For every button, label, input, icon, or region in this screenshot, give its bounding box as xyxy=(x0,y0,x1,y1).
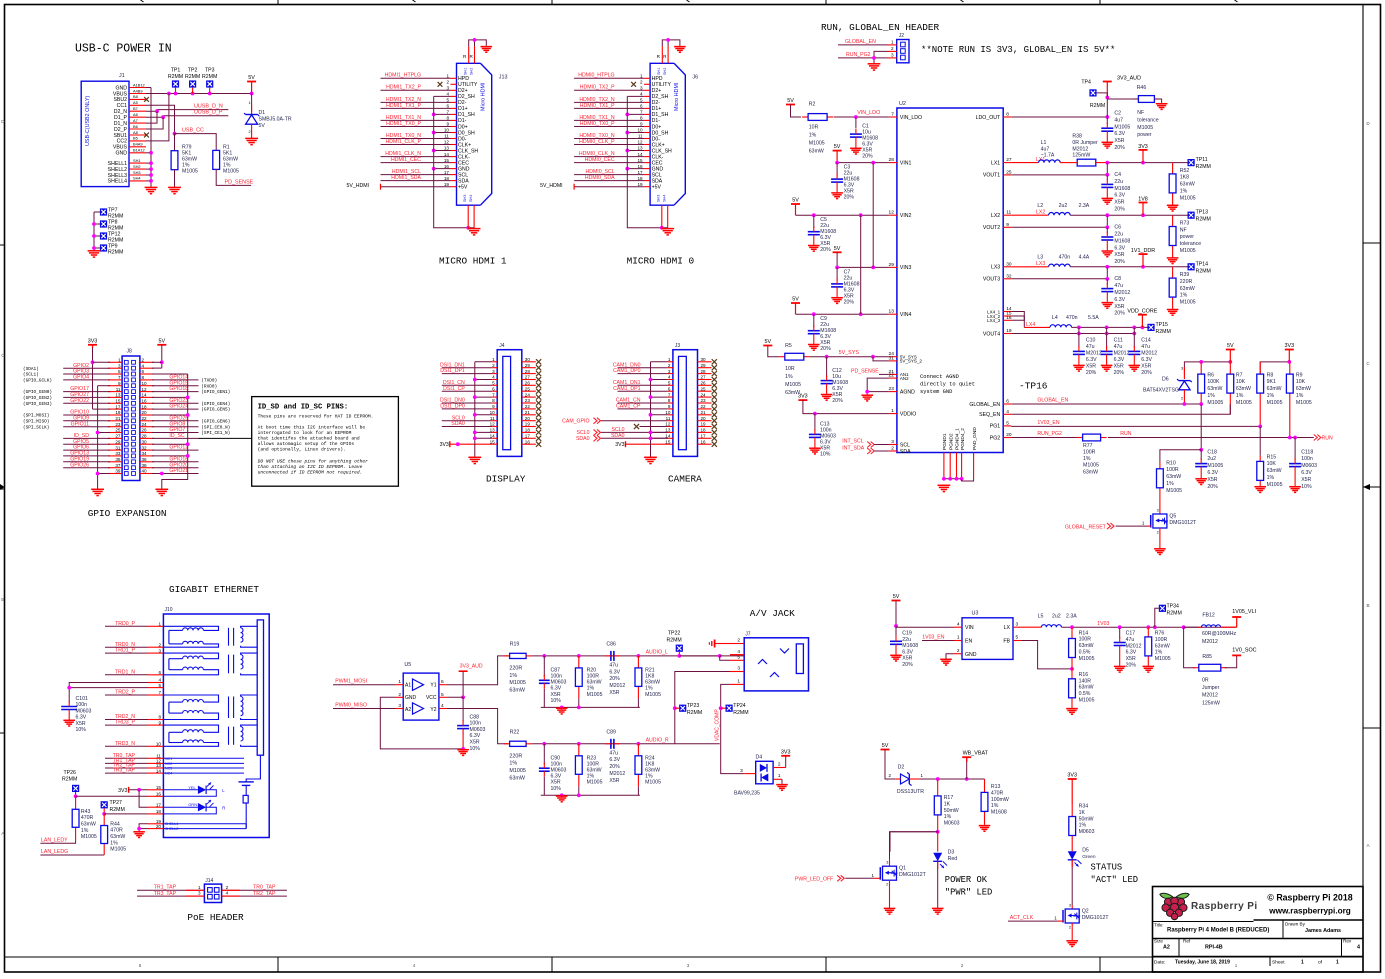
svg-text:TRD3_N: TRD3_N xyxy=(115,741,135,747)
svg-text:63mW: 63mW xyxy=(1166,474,1181,480)
svg-text:Micro HDMI: Micro HDMI xyxy=(481,83,487,111)
svg-text:(SPI_MISO): (SPI_MISO) xyxy=(23,419,49,424)
svg-text:16: 16 xyxy=(525,439,531,444)
J6 pin 11 D0- xyxy=(638,134,660,143)
wire net HDMI0_CLK_N xyxy=(574,151,644,157)
svg-text:10%: 10% xyxy=(551,698,562,704)
resistor R9 xyxy=(1286,362,1311,439)
wire shield pin 4 xyxy=(434,95,451,97)
svg-text:C19: C19 xyxy=(902,631,912,637)
svg-text:15: 15 xyxy=(490,439,496,444)
svg-text:4: 4 xyxy=(142,363,145,368)
J4 pin 2 and pin 29 xyxy=(492,363,536,368)
svg-text:LX: LX xyxy=(1004,625,1011,631)
svg-text:1: 1 xyxy=(957,635,960,641)
svg-text:16: 16 xyxy=(1006,315,1012,321)
svg-text:2: 2 xyxy=(249,130,251,134)
svg-text:5V: 5V xyxy=(792,297,799,303)
svg-text:Tuesday, June 18, 2019: Tuesday, June 18, 2019 xyxy=(1175,960,1230,966)
wire net GPIO22 xyxy=(23,398,110,407)
svg-text:M1005: M1005 xyxy=(509,768,525,774)
wire net HDMI0_CLK_P xyxy=(574,139,644,145)
U2 pin 19 VOUT4 xyxy=(983,328,1012,337)
svg-text:CLK_SH: CLK_SH xyxy=(652,148,672,154)
ground below C2 xyxy=(1106,141,1108,144)
svg-text:63mW: 63mW xyxy=(587,768,602,774)
svg-text:9: 9 xyxy=(640,122,643,127)
svg-text:M1005: M1005 xyxy=(1180,195,1196,201)
wire D2_P jog xyxy=(146,117,163,129)
wire J10 ground pins 19 20 xyxy=(137,824,148,831)
ground below R16 xyxy=(1071,707,1073,710)
svg-text:6.3V: 6.3V xyxy=(1207,470,1218,476)
svg-text:63mW: 63mW xyxy=(809,149,824,155)
svg-text:3: 3 xyxy=(737,666,740,672)
capacitor C19 xyxy=(890,626,918,668)
svg-text:10: 10 xyxy=(444,128,450,133)
svg-text:0.5%: 0.5% xyxy=(1079,691,1091,697)
wire net HDMI0_TX0_P xyxy=(574,121,644,127)
svg-text:Connect AGND: Connect AGND xyxy=(920,374,959,380)
svg-text:3: 3 xyxy=(886,861,888,865)
svg-text:9: 9 xyxy=(1006,222,1009,228)
svg-text:SHELL2: SHELL2 xyxy=(165,827,178,831)
resistor R10 xyxy=(1157,460,1183,495)
ground below D1 xyxy=(251,137,253,140)
svg-text:X5R: X5R xyxy=(609,690,619,696)
svg-text:R6: R6 xyxy=(1207,372,1214,378)
svg-text:20%: 20% xyxy=(1141,370,1152,376)
svg-text:6.3V: 6.3V xyxy=(609,757,620,763)
ground below R13 xyxy=(984,824,986,827)
svg-text:GPIO11: GPIO11 xyxy=(71,421,89,427)
J4 pin 5 and pin 26 xyxy=(492,381,536,386)
svg-text:TP24: TP24 xyxy=(733,703,746,709)
U2 pin 9 VOUT2 xyxy=(983,222,1011,231)
capacitor C87 xyxy=(539,656,567,708)
test point TP34 xyxy=(1155,604,1182,628)
J10 NC pins 11-14 xyxy=(163,757,244,776)
resistor R24 xyxy=(635,744,661,796)
svg-text:GPIO24: GPIO24 xyxy=(169,404,188,410)
svg-text:19: 19 xyxy=(444,182,450,187)
test point TP15 xyxy=(1147,322,1170,335)
capacitor C88 xyxy=(457,714,485,752)
svg-text:1K8: 1K8 xyxy=(1180,175,1189,181)
svg-text:YEL: YEL xyxy=(188,785,196,790)
J13 pin 14 CLK- xyxy=(444,152,470,161)
svg-text:4: 4 xyxy=(640,92,643,97)
svg-text:J1: J1 xyxy=(119,73,125,79)
svg-text:2: 2 xyxy=(961,963,964,968)
wire shield pin 13 xyxy=(432,149,451,153)
svg-text:L3: L3 xyxy=(1037,255,1043,261)
U2 pin 32 VOUT3 xyxy=(983,273,1012,282)
wire D4 pin1 to ground xyxy=(773,773,782,784)
resistor R20 xyxy=(575,656,602,708)
wire shield pin 7 xyxy=(625,113,644,117)
svg-text:SCL: SCL xyxy=(900,442,910,448)
ground below C17 xyxy=(1119,665,1121,668)
wire net HDMI0_SCL xyxy=(574,169,644,175)
svg-text:6.3V: 6.3V xyxy=(1114,297,1125,303)
svg-text:29: 29 xyxy=(115,439,121,444)
note box ID_SD and ID_SC PINS xyxy=(252,397,399,487)
wire net GPIO25 xyxy=(152,415,230,424)
svg-text:R: R xyxy=(222,806,225,811)
svg-text:X5R: X5R xyxy=(1301,477,1311,483)
J4 pin 9 and pin 22 xyxy=(492,404,536,409)
svg-text:2: 2 xyxy=(891,46,894,51)
svg-text:10%: 10% xyxy=(1301,484,1312,490)
test point TP13 xyxy=(1188,210,1211,223)
wire AN2 AGND to ground xyxy=(865,378,889,394)
svg-text:A1B12: A1B12 xyxy=(133,82,145,87)
wire net TR3_TAP xyxy=(105,768,148,774)
svg-text:10K: 10K xyxy=(1236,379,1246,385)
J3 pin 1 and pin 30 xyxy=(668,357,712,362)
J8 row pins 23 and 24 xyxy=(108,422,154,427)
svg-text:R2MM: R2MM xyxy=(687,710,702,716)
wire net HDMI1_TX1_N xyxy=(381,115,451,121)
wire net ID_SD xyxy=(63,433,110,439)
offpage connector RUN xyxy=(1314,435,1333,442)
J6 pin 13 CLK_SH xyxy=(637,146,672,155)
resistor R38 jumper xyxy=(1041,134,1108,167)
svg-text:PGND2: PGND2 xyxy=(948,433,954,450)
J6 pin 15 CEC xyxy=(637,158,662,167)
svg-text:interrogated to look for an EE: interrogated to look for an EEPROM xyxy=(258,430,352,436)
test point TP3 xyxy=(202,68,217,94)
svg-text:HDMI1_TX2_P: HDMI1_TX2_P xyxy=(386,85,421,91)
wire net HDMI1_TX1_P xyxy=(381,103,451,109)
capacitor C12 xyxy=(821,357,849,404)
svg-text:220R: 220R xyxy=(509,753,522,759)
J3 pin 3 and pin 28 xyxy=(668,369,712,374)
svg-text:7: 7 xyxy=(668,392,671,397)
connector J1 xyxy=(81,73,129,187)
svg-text:26: 26 xyxy=(142,428,148,433)
wire net DSI1_CP xyxy=(442,386,492,392)
J3 pin 9 and pin 22 xyxy=(668,404,712,409)
svg-text:M2012: M2012 xyxy=(1202,693,1218,699)
svg-text:63mW: 63mW xyxy=(1236,386,1251,392)
svg-text:X5R: X5R xyxy=(1114,138,1124,144)
connector J8 xyxy=(122,349,140,481)
svg-text:1%: 1% xyxy=(1267,475,1275,481)
ground below C7 xyxy=(836,296,838,299)
svg-text:10: 10 xyxy=(142,381,148,386)
resistor R43 xyxy=(72,796,97,840)
svg-text:3: 3 xyxy=(668,369,671,374)
U2 pin 4 SEQ_EN xyxy=(979,409,1011,418)
svg-text:HDMI1_TX0_P: HDMI1_TX0_P xyxy=(386,121,421,127)
svg-text:2: 2 xyxy=(668,363,671,368)
svg-text:M1005: M1005 xyxy=(110,847,126,853)
wire GND bus J1 xyxy=(146,88,153,187)
svg-text:19: 19 xyxy=(637,182,643,187)
svg-text:CAM_GPIO: CAM_GPIO xyxy=(562,418,589,424)
svg-text:R2MM: R2MM xyxy=(108,250,123,256)
svg-text:GPIO26: GPIO26 xyxy=(70,462,89,468)
svg-text:Jumper: Jumper xyxy=(1202,685,1220,691)
regulator U3 xyxy=(954,611,1021,660)
svg-text:SMBJ5.0A-TR: SMBJ5.0A-TR xyxy=(259,117,292,123)
J6 bottom shell pins xyxy=(657,195,668,228)
svg-text:SHELL1: SHELL1 xyxy=(165,822,178,826)
svg-text:16: 16 xyxy=(701,439,707,444)
resistor R46 xyxy=(1107,85,1161,138)
svg-text:PAD_GND: PAD_GND xyxy=(972,427,978,450)
U2 pin 30 LX3 xyxy=(991,261,1012,270)
wire LAN_LEDG xyxy=(40,849,104,855)
svg-text:220R: 220R xyxy=(509,665,522,671)
no-connect J3 pin 30 xyxy=(712,359,717,364)
svg-text:GLOBAL_RESET: GLOBAL_RESET xyxy=(1065,524,1107,530)
svg-text:M2012: M2012 xyxy=(1114,350,1130,356)
J4 pin 8 and pin 23 xyxy=(492,398,536,403)
J1 pin B4A9 VBUS xyxy=(113,142,146,151)
U2 pin 5 PG1 xyxy=(990,420,1011,429)
svg-text:GPIO22: GPIO22 xyxy=(70,398,89,404)
svg-text:R13: R13 xyxy=(991,784,1001,790)
svg-text:2: 2 xyxy=(492,363,495,368)
wire VIN2-VIN4 vertical xyxy=(860,215,862,314)
svg-text:PWR_LED_OFF: PWR_LED_OFF xyxy=(795,876,833,882)
wire INT_SCL xyxy=(842,439,889,448)
wire shield pin 16 xyxy=(432,167,451,171)
svg-text:power: power xyxy=(1180,234,1194,240)
svg-text:50mW: 50mW xyxy=(944,808,959,814)
J10 pin 14 xyxy=(148,768,163,773)
ground below C12 xyxy=(826,393,828,396)
J3 pin 7 and pin 24 xyxy=(668,392,712,397)
svg-text:1%: 1% xyxy=(1155,650,1163,656)
svg-text:C14: C14 xyxy=(1141,337,1151,343)
svg-text:AGND: AGND xyxy=(900,389,915,395)
svg-text:Q5: Q5 xyxy=(1169,514,1176,520)
svg-text:James Adams: James Adams xyxy=(1305,928,1341,934)
svg-text:These pins are reserved for HA: These pins are reserved for HAT ID EEPRO… xyxy=(258,414,374,420)
inductor L3 xyxy=(1011,255,1070,267)
no-connect J3 pin 24 xyxy=(712,395,717,400)
wire net HDMI0_TX1_P xyxy=(574,103,644,109)
power flag 5V D2 xyxy=(881,743,896,779)
J4 pin 12 and pin 19 xyxy=(490,422,536,427)
svg-text:5.5A: 5.5A xyxy=(1088,315,1099,321)
J13 pin 10 D0_SH xyxy=(444,128,475,137)
wire D1_N jog xyxy=(146,111,157,123)
svg-text:24: 24 xyxy=(701,392,707,397)
svg-text:63mW: 63mW xyxy=(645,680,660,686)
svg-text:6.3V: 6.3V xyxy=(1086,357,1097,363)
svg-text:(GPIO_GEN4): (GPIO_GEN4) xyxy=(201,402,230,407)
svg-text:10K: 10K xyxy=(1296,379,1306,385)
power 3V3 J3 pin15 xyxy=(615,441,668,448)
svg-text:R52: R52 xyxy=(1180,168,1190,174)
svg-text:R2MM: R2MM xyxy=(1090,103,1105,109)
capacitor C9 xyxy=(808,314,836,352)
svg-text:4: 4 xyxy=(737,649,740,655)
wire J7 pin3 to AUDIO_R xyxy=(673,672,730,744)
svg-text:PGND4_1: PGND4_1 xyxy=(955,428,961,450)
svg-text:R2MM: R2MM xyxy=(1167,610,1182,616)
title block fields xyxy=(1154,922,1360,966)
svg-text:20%: 20% xyxy=(844,195,855,201)
svg-text:B1A12: B1A12 xyxy=(133,148,145,153)
svg-text:60R@100MHz: 60R@100MHz xyxy=(1202,631,1237,637)
svg-text:28: 28 xyxy=(889,157,895,163)
svg-text:R85: R85 xyxy=(1202,654,1212,660)
capacitor C89 series xyxy=(605,729,625,784)
svg-text:24: 24 xyxy=(525,392,531,397)
svg-text:63mW: 63mW xyxy=(509,776,525,782)
svg-text:C87: C87 xyxy=(551,667,561,673)
svg-text:14: 14 xyxy=(637,152,643,157)
svg-text:EN: EN xyxy=(965,639,972,645)
svg-text:HDMI1_HTPLG: HDMI1_HTPLG xyxy=(385,73,421,79)
svg-text:47u: 47u xyxy=(609,662,618,668)
svg-text:4: 4 xyxy=(226,891,229,896)
svg-text:WB_VBAT: WB_VBAT xyxy=(963,750,989,756)
svg-text:VIN_LDO: VIN_LDO xyxy=(857,110,880,116)
J10 pin 9 xyxy=(148,720,163,725)
J10 pin 7 xyxy=(148,690,163,695)
wire J4 gnd bus xyxy=(473,362,492,457)
svg-text:C17: C17 xyxy=(1126,631,1136,637)
wire net DSI1_DP1 xyxy=(440,368,492,374)
svg-text:SH4: SH4 xyxy=(469,195,473,202)
svg-text:1: 1 xyxy=(398,679,401,685)
svg-text:4: 4 xyxy=(413,963,416,968)
svg-text:7: 7 xyxy=(446,110,449,115)
svg-text:of: of xyxy=(1318,960,1323,966)
J8 row pins 39 and 40 xyxy=(108,469,154,474)
svg-text:TRD1_P: TRD1_P xyxy=(115,648,135,654)
ground below C8 xyxy=(1106,301,1108,304)
svg-text:1%: 1% xyxy=(1166,481,1174,487)
svg-text:R2MM: R2MM xyxy=(202,74,217,80)
svg-text:M1005: M1005 xyxy=(1267,482,1283,488)
svg-text:SEQ_EN: SEQ_EN xyxy=(979,412,1000,418)
svg-text:63mW: 63mW xyxy=(1267,468,1282,474)
resistor R34 xyxy=(1069,804,1095,848)
svg-text:1%: 1% xyxy=(1180,293,1188,299)
svg-text:20%: 20% xyxy=(820,247,831,253)
ground AUDIO_L xyxy=(561,706,563,709)
power flag VDD_CORE xyxy=(1127,309,1157,328)
power flag 5V for R2 xyxy=(786,98,801,117)
J6 top shell pins xyxy=(657,38,680,75)
svg-text:SDA0: SDA0 xyxy=(611,433,625,439)
svg-text:C4: C4 xyxy=(1114,172,1121,178)
wire net HDMI1_SCL xyxy=(381,169,451,175)
svg-text:TRD1_N: TRD1_N xyxy=(115,669,135,675)
svg-text:that identifes the attached bo: that identifes the attached board and xyxy=(258,436,360,442)
no-connect J3 pin 17 xyxy=(712,436,717,441)
wire 5V_SYS xyxy=(809,350,889,361)
svg-text:3: 3 xyxy=(891,439,894,445)
svg-text:D2+: D2+ xyxy=(652,88,662,94)
svg-text:TR1_TAP: TR1_TAP xyxy=(154,884,177,890)
svg-text:HDMI0_HTPLG: HDMI0_HTPLG xyxy=(578,73,614,79)
wire Y2 to R22 xyxy=(447,709,508,744)
svg-text:1%: 1% xyxy=(944,814,952,820)
svg-text:~1.7A: ~1.7A xyxy=(1041,152,1055,158)
wire PWR_LED_OFF xyxy=(795,875,874,882)
svg-text:TR3_TAP: TR3_TAP xyxy=(113,768,136,774)
svg-text:1V0_SOC: 1V0_SOC xyxy=(1232,648,1256,654)
wire net TR2_TAP xyxy=(105,763,148,769)
svg-text:1%: 1% xyxy=(1236,393,1244,399)
svg-text:J4: J4 xyxy=(499,343,505,349)
svg-text:(SPI_MOSI): (SPI_MOSI) xyxy=(23,414,49,419)
wire INT_SDA xyxy=(842,446,889,454)
wire rail VDD_CORE xyxy=(1072,326,1151,330)
svg-text:6: 6 xyxy=(640,104,643,109)
wire TR1_TAP to J14 pin1 xyxy=(137,884,204,890)
svg-text:47u: 47u xyxy=(1086,344,1095,350)
diode D2 DSS13UTR xyxy=(889,765,925,796)
svg-text:20: 20 xyxy=(525,416,531,421)
U2 pin 16 LX4_3 xyxy=(987,315,1012,323)
svg-text:M1005: M1005 xyxy=(1155,656,1171,662)
U2 pin 21 AN1 xyxy=(889,369,910,377)
U2 pin 25 VOUT1 xyxy=(983,169,1012,178)
svg-text:0R: 0R xyxy=(1202,678,1209,684)
svg-text:25: 25 xyxy=(1006,169,1012,175)
svg-text:20%: 20% xyxy=(1114,311,1125,317)
svg-text:Y1: Y1 xyxy=(430,683,436,689)
svg-text:R39: R39 xyxy=(1180,272,1190,278)
svg-text:VIN4: VIN4 xyxy=(900,312,912,318)
svg-text:PD_SENSE: PD_SENSE xyxy=(851,369,879,375)
svg-text:63mW: 63mW xyxy=(81,822,96,828)
svg-text:20%: 20% xyxy=(832,398,843,404)
inductor L1 xyxy=(1011,140,1060,163)
svg-text:A5: A5 xyxy=(133,100,138,105)
svg-text:125mW: 125mW xyxy=(1072,153,1090,159)
no-connect J4 pin 23 xyxy=(536,400,541,405)
power 3V3 J4 pin15 xyxy=(440,441,493,448)
U2 pin 14 LX4_1 xyxy=(987,306,1012,314)
svg-text:"ACT" LED: "ACT" LED xyxy=(1091,875,1139,885)
svg-text:L4: L4 xyxy=(1052,315,1058,321)
svg-text:2u2: 2u2 xyxy=(1059,203,1068,209)
svg-text:GLOBAL_EN: GLOBAL_EN xyxy=(1037,398,1068,404)
svg-text:A2: A2 xyxy=(1163,945,1170,951)
svg-text:6.3V: 6.3V xyxy=(1141,357,1152,363)
svg-text:ACT_CLK: ACT_CLK xyxy=(1010,915,1034,921)
svg-text:HDMI0_SDA: HDMI0_SDA xyxy=(585,175,615,181)
J10 pin 18 xyxy=(148,809,163,814)
J4 pin 4 and pin 27 xyxy=(492,375,536,380)
svg-text:1%: 1% xyxy=(509,673,517,679)
svg-text:B7: B7 xyxy=(133,106,138,111)
svg-text:6: 6 xyxy=(492,386,495,391)
svg-text:CAMERA: CAMERA xyxy=(668,474,702,485)
J13 top shell pins xyxy=(463,38,486,75)
wire J2 pin2 down xyxy=(874,51,888,63)
svg-text:GPIO18: GPIO18 xyxy=(169,386,188,392)
J6 pin 7 D1_SH xyxy=(640,110,669,119)
svg-text:M1005: M1005 xyxy=(1166,488,1182,494)
svg-text:3: 3 xyxy=(118,363,121,368)
transistor Q5 DMG1012T xyxy=(1142,495,1197,548)
svg-text:28: 28 xyxy=(142,434,148,439)
ground below U2 xyxy=(943,484,945,487)
svg-text:B: B xyxy=(1,597,4,602)
